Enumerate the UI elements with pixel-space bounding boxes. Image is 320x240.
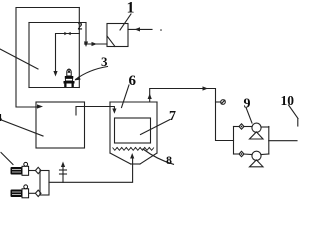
svg-text:9: 9: [244, 97, 251, 112]
svg-text:6: 6: [129, 73, 137, 89]
svg-text:7: 7: [169, 109, 176, 124]
svg-text:3: 3: [101, 54, 108, 69]
svg-text:2: 2: [78, 22, 83, 33]
svg-text:10: 10: [281, 93, 295, 108]
svg-text:1: 1: [127, 0, 135, 17]
svg-text:8: 8: [166, 153, 172, 167]
